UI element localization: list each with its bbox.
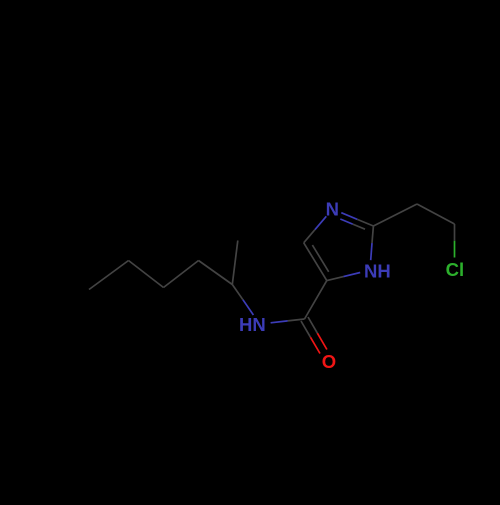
bond chain 4 (89, 261, 129, 290)
bond N1-C5 (C half) (327, 277, 344, 281)
bond C5-C(=O) (305, 281, 327, 319)
bond N3=C2 inner (C half) (353, 224, 365, 229)
bond N3=C2 main (N half) (341, 213, 357, 220)
bond N-CH (C half) (232, 285, 243, 300)
bond chain 2 (164, 261, 199, 288)
bond chain 3 (129, 261, 164, 288)
svg-text:O: O (322, 351, 336, 372)
svg-text:N: N (326, 198, 339, 219)
bond C2-N1 (C half) (372, 226, 373, 243)
bond C4=C5 main (304, 243, 327, 281)
bond C=O line1 (O half) (311, 337, 321, 353)
bond CH2-CH2 (417, 204, 455, 224)
bond C-Cl (Cl half) (454, 241, 456, 258)
bond N-CH (N half) (243, 300, 254, 315)
bond N3=C2 inner (N half) (340, 219, 352, 224)
bond C=O line2 (C half) (308, 317, 317, 333)
bond C(=O)-N (C half) (288, 319, 305, 321)
bond C=O line2 (O half) (317, 333, 327, 349)
bond C=O line1 (C half) (301, 321, 311, 337)
bond C2-CH2 (373, 204, 417, 226)
bond C4-N3 (C half) (304, 230, 315, 243)
bond N1-C5 (N half) (344, 273, 361, 277)
bond C4=C5 inner (312, 245, 328, 272)
bond CH-CH3 branch (232, 241, 238, 285)
bond C-Cl (C half) (454, 224, 456, 241)
svg-text:NH: NH (364, 261, 391, 282)
bond C4-N3 (N half) (315, 216, 326, 229)
bond chain 1 (199, 261, 233, 285)
bond C(=O)-N (N half) (271, 321, 288, 323)
svg-text:HN: HN (239, 314, 266, 335)
bond N3=C2 main (C half) (357, 219, 373, 226)
svg-text:Cl: Cl (446, 259, 465, 280)
bond C2-N1 (N half) (371, 243, 372, 260)
